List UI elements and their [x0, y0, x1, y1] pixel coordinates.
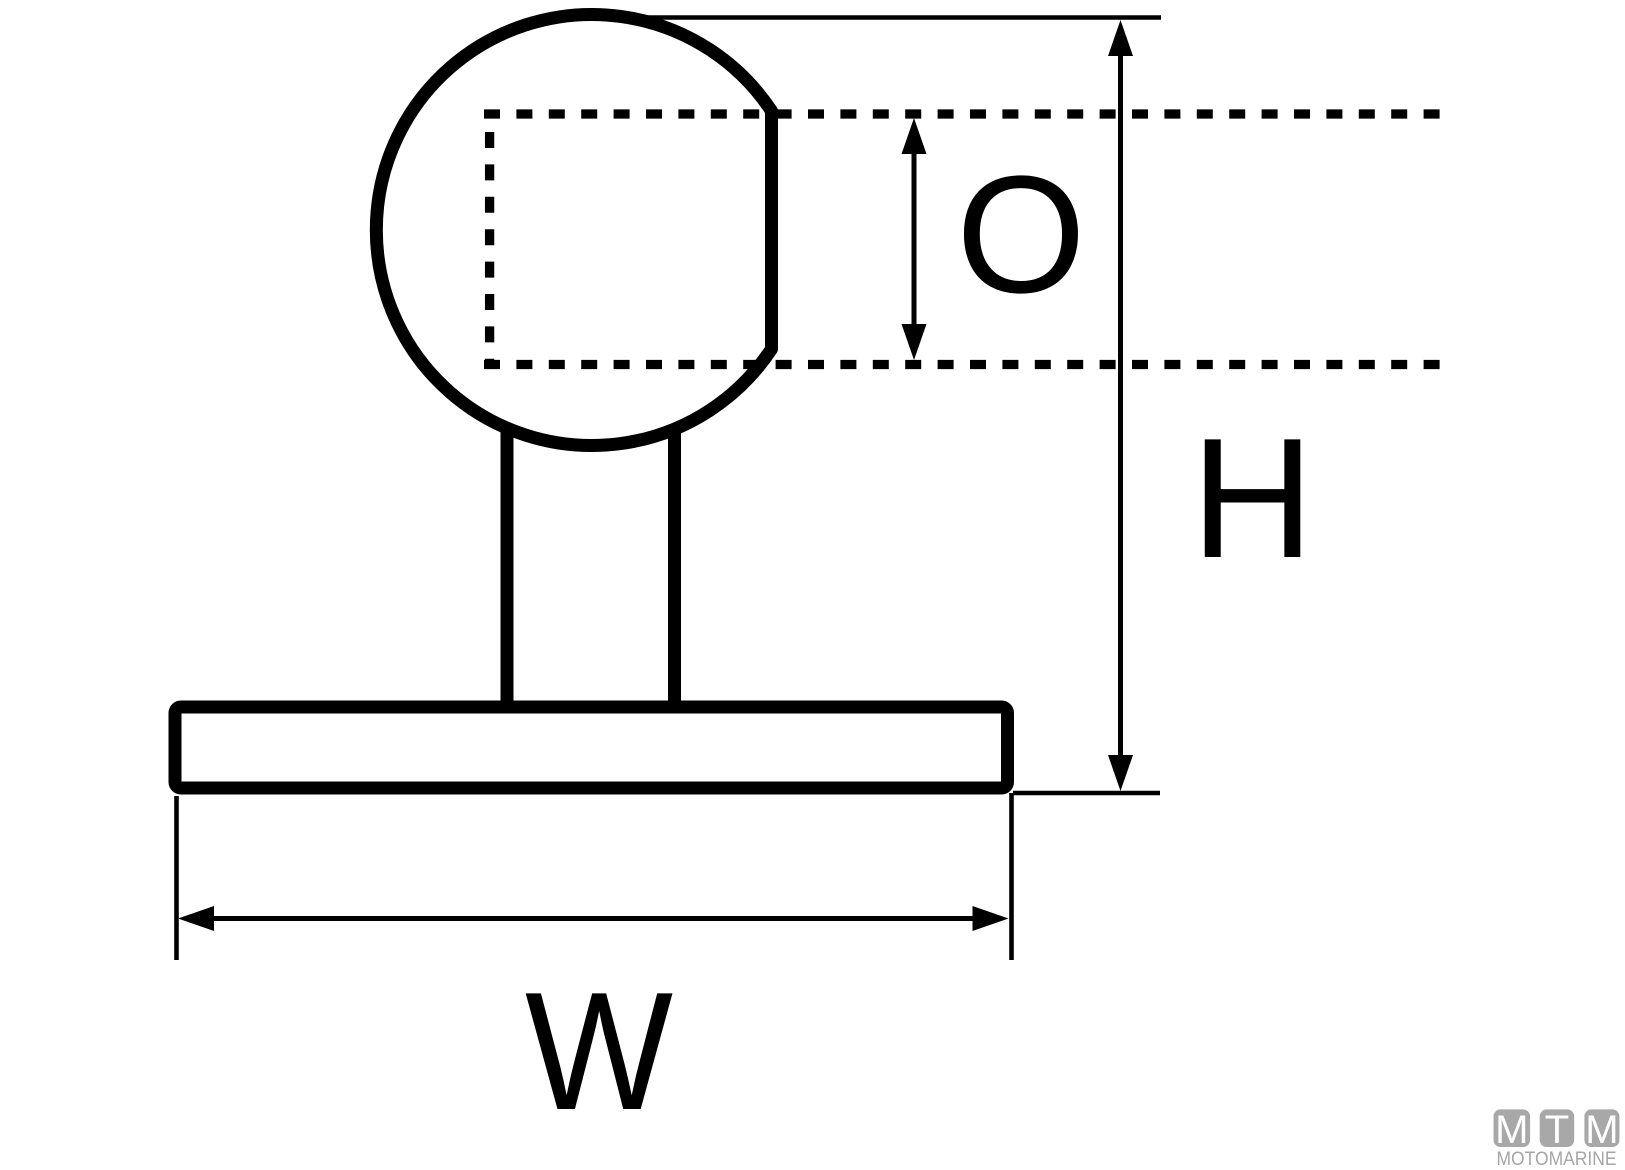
svg-text:T: T [1545, 1108, 1569, 1152]
wire top extension line (H top) [592, 15, 1161, 20]
dashed tube bottom [484, 360, 1441, 369]
svg-text:H: H [1191, 403, 1315, 594]
ball with flat face [376, 14, 771, 445]
svg-text:O: O [956, 142, 1086, 328]
svg-text:W: W [525, 957, 673, 1145]
svg-text:MOTOMARINE: MOTOMARINE [1497, 1148, 1617, 1170]
logo MTM tile 1 [1494, 1109, 1531, 1147]
base plate [175, 707, 1008, 788]
dimension O arrow [912, 145, 917, 332]
logo MTM tile 3 [1584, 1109, 1619, 1147]
wire W left extension [174, 796, 179, 960]
dimension H line [1118, 50, 1123, 762]
wire bottom extension line (H bottom) [1013, 791, 1160, 796]
dashed tube left [485, 132, 494, 369]
svg-text:M: M [1495, 1108, 1528, 1152]
arrowhead H top [1108, 20, 1133, 56]
wire stem right [668, 400, 681, 712]
arrowhead W left [178, 906, 214, 931]
svg-text:M: M [1585, 1108, 1618, 1152]
wire stem left [501, 400, 514, 712]
dimension W line [205, 916, 982, 921]
arrowhead H bottom [1108, 755, 1133, 791]
logo MTM tile 2 [1540, 1109, 1575, 1147]
arrowhead O bottom [902, 324, 927, 360]
dashed tube top [484, 109, 1446, 118]
arrowhead O top [902, 118, 927, 154]
wire W right extension [1009, 793, 1014, 960]
arrowhead W right [973, 906, 1009, 931]
